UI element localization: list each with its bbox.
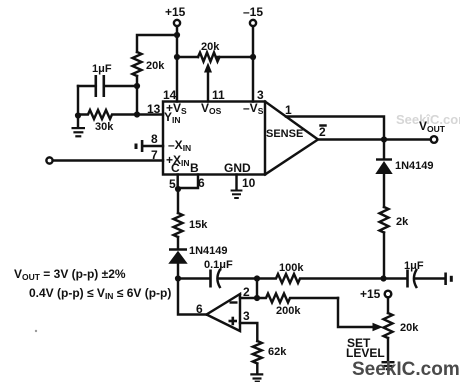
svg-text:3: 3 (243, 309, 250, 323)
plus input mark (229, 320, 238, 323)
wire top trim row (177, 56, 198, 58)
op-amp U1 multiplier block (163, 102, 265, 175)
svg-text:6: 6 (198, 176, 205, 190)
svg-text:1: 1 (285, 103, 292, 117)
svg-text:+15: +15 (360, 287, 381, 301)
arrow wiper pot (373, 323, 384, 332)
svg-text:7: 7 (151, 148, 158, 162)
wiper arrow Vos (207, 71, 209, 102)
terminal input left (46, 157, 52, 163)
svg-text:6: 6 (196, 302, 203, 316)
svg-text:62k: 62k (268, 346, 287, 358)
terminal +15 top (174, 20, 180, 26)
node rail left junction (175, 275, 181, 281)
wire pin13 (137, 113, 163, 115)
node rail right junction (380, 275, 386, 281)
node 30k junction (134, 111, 140, 117)
node 100k junction (254, 275, 260, 281)
svg-text:15k: 15k (189, 219, 208, 231)
pin 8 stub connector (143, 145, 163, 147)
ground left (77, 116, 79, 128)
resistor 30k horizontal (78, 110, 137, 119)
wire pin2 to op-amp (240, 297, 257, 299)
resistor 62k (253, 341, 262, 364)
wire 20k bottom to node (136, 76, 138, 115)
resistor 200k (257, 294, 338, 303)
resistor 20k top trim (198, 53, 220, 62)
wire -15 vertical to pin 3 (252, 26, 254, 101)
node cap junction (134, 83, 140, 89)
wire +15 vertical to pin 14 (176, 26, 178, 101)
wire pin6 output (178, 279, 207, 315)
sense triangle (265, 102, 318, 175)
svg-text:13: 13 (147, 102, 161, 116)
speck artifact (35, 330, 37, 332)
wire pin3 (240, 323, 257, 341)
node junction +15 branch (174, 32, 180, 38)
node pin2 junction (254, 295, 260, 301)
output stub connector (444, 273, 447, 286)
wire sense output to Vout (318, 138, 431, 140)
svg-text:2k: 2k (396, 216, 409, 228)
capacitor 0.1uF (178, 277, 209, 279)
node ground-left junction (75, 112, 81, 118)
node output junction (381, 136, 387, 142)
svg-text:11: 11 (212, 88, 225, 102)
ground pot (382, 361, 395, 363)
svg-text:1μF: 1μF (92, 63, 112, 75)
wire 200k to pot wiper (338, 298, 374, 327)
svg-text:0.1μF: 0.1μF (204, 259, 233, 271)
capacitor 1uF top left (104, 85, 137, 87)
wire +15 to left 20k (137, 35, 177, 52)
svg-text:0.4V (p-p) ≤ VIN ≤ 6V (p-p): 0.4V (p-p) ≤ VIN ≤ 6V (p-p) (29, 286, 171, 301)
ground op-amp (250, 373, 263, 375)
svg-text:200k: 200k (276, 305, 301, 317)
svg-text:20k: 20k (400, 322, 419, 334)
node trim row right (250, 54, 256, 60)
svg-text:C: C (171, 161, 180, 175)
resistor 20k left vertical (133, 52, 142, 76)
svg-text:30k: 30k (95, 121, 114, 133)
svg-text:SENSE: SENSE (266, 128, 303, 140)
svg-text:–15: –15 (243, 5, 263, 19)
svg-text:GND: GND (224, 161, 251, 175)
node trim row left (174, 54, 180, 60)
wire pin6 B jumper (178, 175, 198, 189)
wire to 15k (177, 189, 179, 213)
svg-text:2: 2 (243, 285, 250, 299)
wire cap left down (77, 86, 79, 116)
diode 1N4149 right (383, 140, 385, 160)
svg-text:2: 2 (319, 125, 326, 139)
potentiometer 20k (384, 313, 393, 338)
svg-text:8: 8 (151, 132, 158, 146)
svg-text:1N4149: 1N4149 (395, 160, 434, 172)
wire 62k to ground (256, 364, 258, 374)
svg-text:20k: 20k (201, 41, 220, 53)
ground pin10 (235, 175, 237, 191)
svg-text:100k: 100k (279, 262, 304, 274)
wire pin2 vertical (256, 279, 258, 299)
wire pin 7 input (53, 159, 163, 161)
wire pot to ground (387, 338, 389, 362)
svg-text:3: 3 (257, 88, 264, 102)
svg-text:LEVEL: LEVEL (346, 346, 385, 360)
op-amp A2 (207, 294, 241, 331)
minus input mark (230, 301, 238, 303)
terminal -15 top (250, 20, 256, 26)
wire 2k to bottom rail (383, 233, 385, 279)
node C-B junction (175, 186, 181, 192)
svg-text:14: 14 (163, 88, 177, 102)
wire pin 1 feedback (286, 117, 384, 140)
resistor 100k (257, 274, 384, 283)
svg-text:+15: +15 (165, 5, 186, 19)
diode 1N4149 left (169, 248, 187, 250)
svg-text:1μF: 1μF (404, 260, 424, 272)
svg-text:B: B (190, 161, 199, 175)
svg-text:20k: 20k (146, 60, 165, 72)
svg-text:10: 10 (242, 176, 256, 190)
resistor 2k (380, 207, 389, 233)
terminal +15 pot (385, 291, 392, 298)
wire 15k to diode (177, 237, 179, 249)
svg-text:5: 5 (169, 177, 176, 191)
wire +15 to pot (387, 297, 389, 313)
capacitor 1uF bottom (384, 277, 407, 279)
resistor 15k (174, 213, 183, 237)
svg-text:SeekIC.com: SeekIC.com (352, 359, 460, 380)
terminal Vout (431, 136, 438, 143)
wire pin5 C (176, 175, 178, 190)
svg-text:1N4149: 1N4149 (189, 245, 228, 257)
